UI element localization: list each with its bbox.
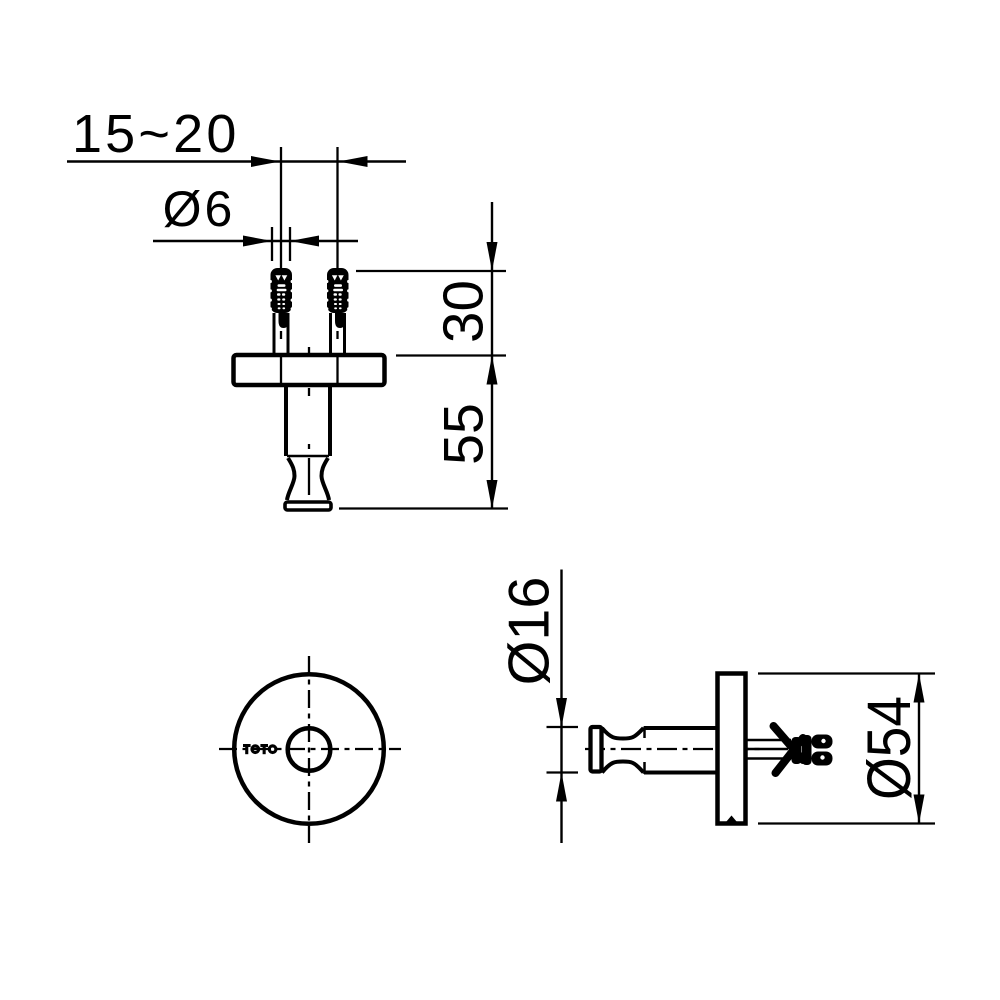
flange outer circle xyxy=(234,674,384,824)
hub inner circle xyxy=(288,728,331,771)
arrow up at knob bottom xyxy=(556,773,567,802)
side centerline xyxy=(585,748,763,750)
arrow down at Ø54 bottom xyxy=(914,795,925,824)
left screw shank xyxy=(274,313,289,355)
ledge verticals xyxy=(643,727,646,739)
hourglass knob profile left xyxy=(287,458,295,500)
arrow left at right screw centerline xyxy=(339,156,368,167)
vertical centerline xyxy=(308,656,310,843)
svg-text:Ø16: Ø16 xyxy=(498,577,562,686)
hook neck bottom curve xyxy=(602,762,644,773)
Ø6 extension line left xyxy=(271,227,273,261)
knob foot xyxy=(285,502,331,510)
svg-text:Ø6: Ø6 xyxy=(163,181,236,237)
extension/center line right screw xyxy=(336,147,338,270)
tick at knob bottom xyxy=(547,771,579,773)
notch at flange bottom xyxy=(726,816,737,823)
TOTO logo xyxy=(243,744,276,754)
anchor body xyxy=(792,737,802,764)
arrow right at Ø6 left xyxy=(243,236,272,247)
arrow down at knob top xyxy=(556,698,567,727)
flange plate (wall plate) xyxy=(234,355,385,385)
dim line 15~20 xyxy=(67,160,406,162)
Ø54 dim line xyxy=(918,674,920,824)
extension line at hook bottom (55 bottom) xyxy=(339,507,508,509)
ledge line xyxy=(287,455,329,458)
stem cylinder top/bottom xyxy=(644,726,717,730)
right screw thread xyxy=(325,268,350,313)
arrow right at left screw centerline xyxy=(251,156,280,167)
right screw shank xyxy=(331,313,346,355)
screw shaft behind wall xyxy=(746,739,791,742)
hourglass knob profile right xyxy=(322,458,330,500)
dim line Ø6 xyxy=(153,240,358,242)
wall flange side xyxy=(718,674,746,824)
arrow down at y509 (55 bottom) xyxy=(487,480,498,509)
main centerline of stem xyxy=(308,347,310,495)
Ø16 dim line xyxy=(560,570,562,844)
hook neck top curve xyxy=(602,728,644,739)
stem cylinder walls xyxy=(284,387,288,456)
anchor wings X xyxy=(774,726,804,760)
vertical dim line 30/55 xyxy=(491,202,493,509)
Ø54 extension line top xyxy=(758,672,935,674)
arrow up at y355.5 (55 top) xyxy=(487,356,498,385)
tick at knob top xyxy=(547,726,579,728)
Ø6 extension line right xyxy=(289,227,291,261)
extension line at screw top (30 top) xyxy=(356,270,506,272)
hook end disc xyxy=(591,727,602,772)
arrow up at Ø54 top xyxy=(914,674,925,703)
svg-text:Ø54: Ø54 xyxy=(855,696,924,800)
extension/center line left screw xyxy=(280,147,282,270)
svg-text:55: 55 xyxy=(433,403,495,465)
svg-text:30: 30 xyxy=(431,280,494,343)
arrow down at y271 (30 top, outside above) xyxy=(487,242,498,271)
extension line at flange top (30 bottom / 55 top) xyxy=(396,354,506,356)
horizontal centerline xyxy=(219,748,401,750)
screw centerlines through flange xyxy=(280,353,282,385)
Ø54 extension line bottom xyxy=(758,822,935,824)
arrow left at Ø6 right xyxy=(290,236,319,247)
left screw thread xyxy=(269,268,294,313)
svg-text:15~20: 15~20 xyxy=(72,104,240,164)
